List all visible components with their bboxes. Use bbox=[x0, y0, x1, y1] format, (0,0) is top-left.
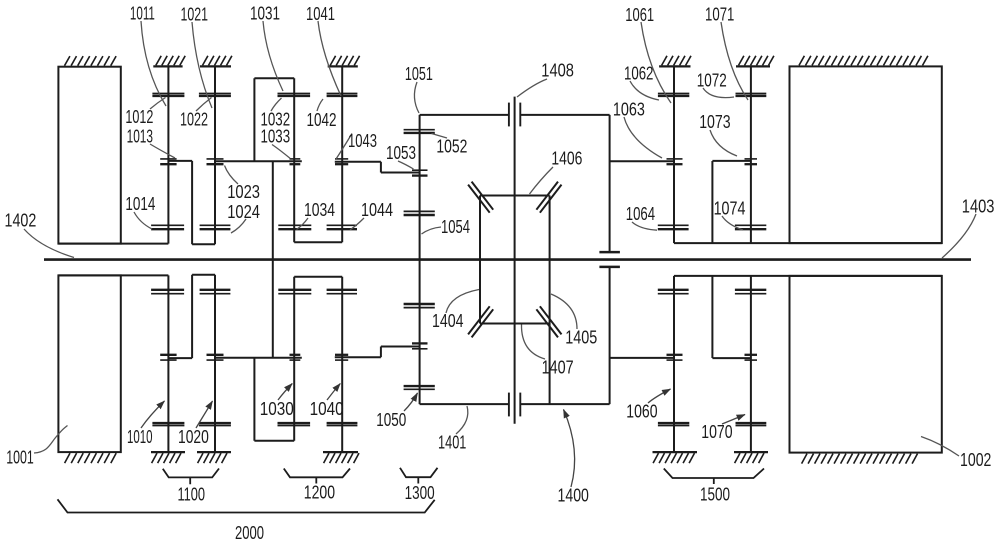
svg-text:2000: 2000 bbox=[235, 522, 264, 543]
svg-text:1024: 1024 bbox=[227, 201, 260, 222]
svg-text:1034: 1034 bbox=[304, 199, 335, 220]
svg-text:1033: 1033 bbox=[261, 126, 291, 147]
svg-text:1500: 1500 bbox=[700, 484, 730, 505]
svg-text:1402: 1402 bbox=[5, 210, 37, 231]
svg-text:1010: 1010 bbox=[127, 426, 153, 447]
svg-text:1041: 1041 bbox=[306, 3, 335, 24]
svg-text:1014: 1014 bbox=[125, 193, 155, 214]
svg-text:1404: 1404 bbox=[432, 310, 464, 331]
svg-text:1200: 1200 bbox=[304, 482, 335, 503]
svg-text:1011: 1011 bbox=[130, 2, 155, 23]
svg-text:1002: 1002 bbox=[960, 449, 991, 470]
svg-text:1064: 1064 bbox=[626, 203, 655, 224]
svg-text:1073: 1073 bbox=[699, 111, 730, 132]
svg-text:1060: 1060 bbox=[626, 401, 657, 422]
svg-text:1044: 1044 bbox=[361, 199, 393, 220]
svg-text:1300: 1300 bbox=[405, 482, 435, 503]
svg-text:1013: 1013 bbox=[127, 126, 153, 147]
svg-text:1021: 1021 bbox=[181, 4, 209, 25]
svg-text:1070: 1070 bbox=[701, 421, 732, 442]
svg-text:1050: 1050 bbox=[376, 409, 406, 430]
svg-text:1405: 1405 bbox=[565, 327, 597, 348]
svg-text:1071: 1071 bbox=[705, 3, 734, 24]
svg-text:1407: 1407 bbox=[542, 357, 574, 378]
svg-text:1022: 1022 bbox=[180, 109, 208, 130]
svg-text:1030: 1030 bbox=[260, 398, 294, 419]
svg-text:1072: 1072 bbox=[697, 69, 727, 90]
svg-text:1054: 1054 bbox=[441, 216, 470, 237]
svg-text:1100: 1100 bbox=[177, 484, 205, 505]
svg-text:1401: 1401 bbox=[438, 432, 466, 453]
svg-text:1403: 1403 bbox=[962, 195, 995, 216]
svg-text:1020: 1020 bbox=[178, 426, 209, 447]
svg-text:1043: 1043 bbox=[348, 130, 377, 151]
svg-text:1400: 1400 bbox=[558, 485, 589, 506]
svg-text:1012: 1012 bbox=[125, 106, 153, 127]
svg-text:1051: 1051 bbox=[405, 63, 433, 84]
svg-text:1040: 1040 bbox=[310, 398, 344, 419]
svg-text:1042: 1042 bbox=[307, 109, 337, 130]
svg-text:1062: 1062 bbox=[624, 63, 653, 84]
svg-text:1063: 1063 bbox=[613, 99, 645, 120]
svg-text:1053: 1053 bbox=[386, 142, 416, 163]
svg-text:1061: 1061 bbox=[625, 4, 654, 25]
svg-text:1074: 1074 bbox=[714, 198, 746, 219]
svg-text:1408: 1408 bbox=[541, 60, 574, 81]
svg-text:1406: 1406 bbox=[551, 148, 582, 169]
svg-text:1052: 1052 bbox=[436, 136, 467, 157]
svg-text:1001: 1001 bbox=[6, 447, 34, 468]
svg-text:1023: 1023 bbox=[227, 181, 260, 202]
svg-text:1031: 1031 bbox=[250, 3, 280, 24]
